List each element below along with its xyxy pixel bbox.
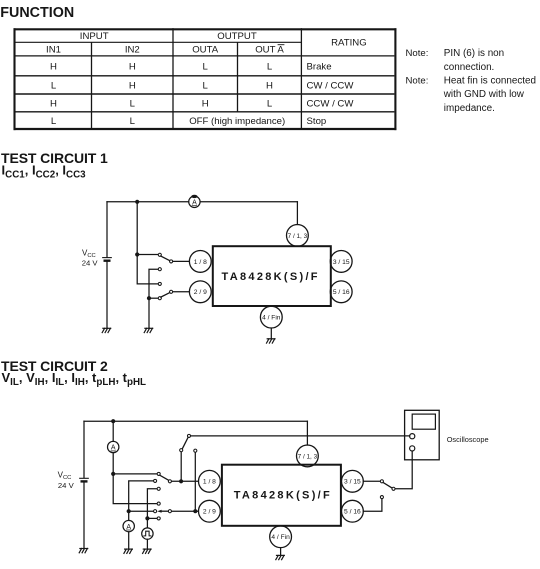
svg-text:H: H (50, 61, 57, 72)
ground (pulse generator) (143, 549, 152, 553)
node junction at switch feed (135, 252, 139, 256)
pin 3/15 (342, 470, 364, 492)
svg-text:INPUT: INPUT (80, 31, 109, 42)
svg-text:H: H (50, 98, 57, 109)
svg-text:TA8428K(S)/F: TA8428K(S)/F (222, 271, 320, 283)
svg-text:L: L (130, 98, 136, 109)
svg-text:7 / 1, 3: 7 / 1, 3 (288, 233, 308, 240)
wire VCC branch down (83, 421, 85, 477)
battery VCC 24V (80, 477, 89, 479)
wire junction to switch S1 upper contact (137, 254, 158, 256)
wire top rail (84, 420, 307, 422)
switch SC (scope select) (180, 434, 197, 452)
wire SB to pin 2/9 (172, 510, 199, 512)
wire pin 3/15 to switch SD (363, 480, 380, 482)
pin 2/9 (189, 281, 211, 303)
svg-text:H: H (129, 80, 136, 91)
node junction on pulse line (145, 516, 149, 520)
wire SA mid contact to meter line (129, 481, 154, 520)
node junction on top rail (135, 200, 139, 204)
svg-text:2 / 9: 2 / 9 (203, 509, 216, 516)
wire junction to switch SB mid contact (129, 510, 154, 512)
wire S1 to pin 1/8 (173, 260, 189, 262)
wire switch feed branch (137, 202, 158, 284)
svg-text:24 V: 24 V (58, 481, 75, 490)
switch SA (input IN1) (154, 472, 172, 490)
op IC U2 TA8428K(S)/F (222, 465, 341, 526)
svg-text:PIN (6) is non: PIN (6) is non (444, 48, 504, 59)
svg-text:OUT A: OUT A (255, 45, 284, 56)
node junction on 2/9 wire (193, 509, 197, 513)
switch SB (input IN2) (154, 502, 172, 520)
wire drop to pin 7/1,3 (306, 421, 308, 445)
node junction on meter line (127, 509, 131, 513)
svg-text:TA8428K(S)/F: TA8428K(S)/F (234, 490, 332, 502)
svg-text:H: H (202, 98, 209, 109)
wire SA to pin 1/8 (172, 480, 199, 482)
svg-text:VIL, VIH, IIL, IIH, tpLH, tpHL: VIL, VIH, IIL, IIH, tpLH, tpHL (2, 370, 147, 388)
wire top rail right segment (200, 201, 297, 203)
node junction on top rail (111, 419, 115, 423)
svg-text:3 / 15: 3 / 15 (344, 479, 361, 486)
svg-text:IN1: IN1 (46, 45, 61, 56)
pin 5/16 (330, 281, 352, 303)
node junction on 1/8 wire (179, 479, 183, 483)
svg-text:H: H (266, 80, 273, 91)
svg-text:OFF (high impedance): OFF (high impedance) (189, 116, 285, 127)
wire S1 lower contact to ground line (149, 269, 158, 328)
wire drop to pin 7/1,3 (296, 202, 298, 225)
svg-text:with GND with low: with GND with low (443, 89, 525, 100)
svg-text:L: L (51, 80, 57, 91)
svg-text:24 V: 24 V (82, 259, 99, 268)
op IC U1 TA8428K(S)/F (213, 246, 331, 306)
ammeter A (supply) (108, 441, 119, 452)
svg-text:L: L (203, 61, 209, 72)
wire SC to oscilloscope input (191, 435, 410, 437)
wire ammeter down and to switch SB upper contact (113, 453, 157, 504)
svg-text:VCC: VCC (58, 470, 72, 481)
svg-text:RATING: RATING (331, 38, 367, 49)
ground (4/Fin) (276, 555, 285, 559)
svg-text:impedance.: impedance. (444, 103, 495, 114)
ground (ammeter) (124, 549, 132, 553)
svg-text:1 / 8: 1 / 8 (194, 259, 207, 266)
wire SD lower contact to pin 5/16 (363, 499, 382, 511)
pin 7/1,3 (297, 445, 319, 467)
oscilloscope (405, 410, 440, 460)
wire top rail left segment (107, 201, 189, 203)
svg-text:H: H (129, 61, 136, 72)
ammeter A (supply current meter) (189, 196, 200, 207)
svg-text:Oscilloscope: Oscilloscope (447, 435, 489, 444)
wire junction to switch S2 lower contact (149, 297, 158, 299)
wire junction to switch SB lower contact (147, 517, 156, 519)
svg-text:OUTPUT: OUTPUT (217, 31, 257, 42)
svg-text:Note:: Note: (406, 48, 429, 59)
node junction below ammeter (111, 472, 115, 476)
wire pin 4/Fin to ground (270, 328, 272, 338)
wire VCC branch down (106, 202, 108, 257)
svg-text:VCC: VCC (82, 248, 96, 259)
pin 1/8 (199, 470, 221, 492)
battery VCC 24V (103, 257, 112, 259)
svg-text:3 / 15: 3 / 15 (333, 259, 350, 266)
wire battery to ground (106, 262, 108, 328)
pin 5/16 (342, 500, 364, 522)
pin 4/Fin (260, 306, 282, 328)
svg-text:connection.: connection. (444, 62, 495, 73)
svg-text:7 / 1, 3: 7 / 1, 3 (298, 453, 318, 460)
svg-text:L: L (130, 116, 136, 127)
wire pin 4/Fin to ground (280, 548, 282, 555)
ground (4/Fin) (267, 339, 276, 343)
svg-text:Brake: Brake (307, 61, 332, 72)
wire SC left contact down to 1/8 wire (180, 452, 182, 481)
svg-text:4 / Fin: 4 / Fin (271, 534, 290, 541)
svg-text:OUTA: OUTA (192, 45, 219, 56)
wire SA lower contact to pulse line (147, 489, 156, 528)
switch S1 (input IN1) (158, 253, 172, 271)
pin 1/8 (189, 251, 211, 273)
svg-text:FUNCTION: FUNCTION (0, 5, 74, 21)
svg-text:4 / Fin: 4 / Fin (262, 315, 281, 322)
svg-text:1 / 8: 1 / 8 (203, 479, 216, 486)
svg-text:Note:: Note: (406, 75, 429, 86)
pin 7/1,3 (287, 225, 309, 247)
svg-text:5 / 16: 5 / 16 (344, 509, 361, 516)
svg-text:L: L (267, 61, 273, 72)
svg-text:2 / 9: 2 / 9 (194, 289, 207, 296)
pin 4/Fin (270, 526, 292, 548)
svg-text:Stop: Stop (307, 116, 327, 127)
svg-text:L: L (51, 116, 57, 127)
wire S2 to pin 2/9 (173, 291, 189, 293)
svg-text:5 / 16: 5 / 16 (333, 289, 350, 296)
wire ammeter to ground (128, 532, 130, 549)
svg-text:IN2: IN2 (125, 45, 140, 56)
ground (battery) (79, 549, 88, 553)
ground (switch line) (144, 328, 153, 332)
svg-text:Heat fin is connected: Heat fin is connected (444, 75, 536, 86)
wire battery to ground (83, 482, 85, 548)
wire junction to ammeter (112, 421, 114, 441)
node junction on ground line (147, 296, 151, 300)
wire pulse generator to ground (146, 539, 148, 548)
pin 2/9 (199, 500, 221, 522)
svg-text:L: L (203, 80, 209, 91)
svg-text:L: L (267, 98, 273, 109)
wire junction to switch SA upper contact (113, 473, 157, 475)
switch S2 (input IN2) (158, 282, 172, 299)
ground (battery) (102, 328, 111, 332)
svg-text:CW / CCW: CW / CCW (307, 80, 355, 91)
svg-text:CCW / CW: CCW / CW (307, 98, 355, 109)
notes (406, 48, 537, 114)
pin 3/15 (330, 251, 352, 273)
wire SD to oscilloscope lower input (395, 451, 412, 489)
ammeter A (input current) (123, 520, 134, 531)
wire SC right contact down to 2/9 wire (194, 453, 196, 512)
pulse generator (142, 528, 153, 539)
switch SD (output select) (380, 480, 395, 499)
